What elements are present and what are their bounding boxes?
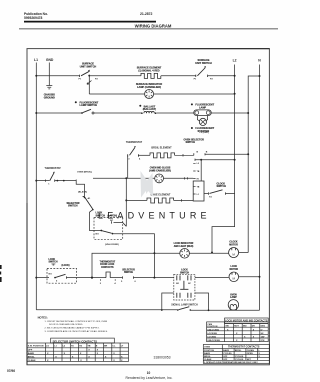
svg-text:P2: P2 xyxy=(210,79,213,81)
svg-text:N: N xyxy=(258,59,261,63)
lock switch B label xyxy=(49,259,70,267)
svg-text:NC: NC xyxy=(188,283,191,285)
switch S2 surface unit switch xyxy=(194,67,214,81)
switch fluorescent lamp switch label xyxy=(80,101,99,107)
ground label xyxy=(44,94,55,100)
junction N row1 xyxy=(259,75,261,77)
ground chassis symbol xyxy=(46,86,52,89)
svg-text:BAKE: BAKE xyxy=(28,352,35,355)
wire main bottom row seg1 xyxy=(36,277,49,279)
starter fluorescent starter xyxy=(199,118,206,125)
svg-text:OFF: OFF xyxy=(223,359,228,361)
svg-text:OPEN: OPEN xyxy=(247,353,253,355)
svg-text:2: 2 xyxy=(100,283,102,285)
oven selector terminal box xyxy=(193,181,204,201)
svg-text:CLOCK: CLOCK xyxy=(229,242,238,244)
svg-text:(BALLAST): (BALLAST) xyxy=(143,108,156,111)
svg-text:CLEAN: CLEAN xyxy=(28,359,36,362)
wire L2 jog to clock motor xyxy=(212,194,235,253)
inductor ballast xyxy=(141,111,156,114)
lamp oven xyxy=(228,300,238,311)
wire to selector arm xyxy=(76,180,84,197)
svg-text:LT: LT xyxy=(121,346,124,348)
motor clock xyxy=(229,248,239,258)
resistor bake element xyxy=(147,198,174,203)
svg-text:L2: L2 xyxy=(197,163,200,165)
header publication text xyxy=(24,12,153,20)
switch fluorescent lamp switch xyxy=(81,109,94,114)
interlock T bar xyxy=(180,281,188,290)
starter label xyxy=(195,127,214,133)
svg-text:BROIL: BROIL xyxy=(204,356,211,358)
svg-text:TB: TB xyxy=(197,186,200,188)
main border frame xyxy=(27,49,269,365)
switch signal lamp blade xyxy=(177,307,191,311)
wire row4 to N feed xyxy=(205,153,248,155)
svg-text:A1: A1 xyxy=(88,197,92,200)
bullet fluorescent starter xyxy=(191,127,193,129)
svg-text:AND LIGHT (RED): AND LIGHT (RED) xyxy=(174,245,194,248)
lamp fluorescent label xyxy=(195,103,214,109)
svg-text:BROIL ELEMENT: BROIL ELEMENT xyxy=(151,146,172,149)
svg-text:SWITCH: SWITCH xyxy=(217,185,227,188)
svg-text:LO: LO xyxy=(46,346,49,348)
motor lock label xyxy=(230,266,239,271)
svg-text:OVEN: OVEN xyxy=(204,346,210,348)
header thick rule xyxy=(24,21,156,23)
junction x93 main row xyxy=(91,277,93,279)
signal lamp switch dashed box xyxy=(174,274,195,300)
wire lock box lower exit xyxy=(113,234,154,278)
svg-text:LOCK: LOCK xyxy=(49,259,56,261)
svg-text:MOTOR: MOTOR xyxy=(229,244,238,246)
switch S2 surface unit switch label xyxy=(195,59,212,65)
lock switch A dashed box xyxy=(94,218,123,240)
svg-text:MOTOR: MOTOR xyxy=(230,269,239,271)
lock switch A NC contact xyxy=(112,221,127,226)
svg-text:CL: CL xyxy=(112,346,116,348)
scan specks left edge xyxy=(0,265,2,282)
svg-text:P1: P1 xyxy=(79,78,82,80)
resistor broil element xyxy=(150,153,175,158)
svg-text:GROUND: GROUND xyxy=(44,96,55,99)
wire bake row right xyxy=(174,199,194,201)
svg-text:POSITION: POSITION xyxy=(207,326,217,328)
svg-text:L1: L1 xyxy=(54,346,57,348)
wire row3 right to N feed xyxy=(211,112,248,114)
svg-text:LOCKED: LOCKED xyxy=(207,337,216,339)
switch S1 second pole blade xyxy=(87,81,92,85)
svg-text:Rendered by LeadVenture, Inc.: Rendered by LeadVenture, Inc. xyxy=(126,376,173,380)
lamp fluorescent tube xyxy=(194,110,211,116)
junction N feed row3 xyxy=(247,112,249,114)
wire row2 xyxy=(89,93,234,95)
svg-text:10: 10 xyxy=(147,371,151,375)
wire row1 mid xyxy=(90,75,141,77)
svg-text:OVEN (BROIL): OVEN (BROIL) xyxy=(77,171,92,173)
wire N feed vertical xyxy=(248,76,259,253)
wire clock switch to L2 xyxy=(226,193,235,195)
svg-text:4: 4 xyxy=(114,282,116,285)
svg-text:07/96: 07/96 xyxy=(7,369,15,373)
switch S1 surface unit switch xyxy=(79,70,99,80)
svg-text:TB: TB xyxy=(88,346,91,348)
svg-text:B: B xyxy=(96,346,98,348)
wire main bottom row seg4 xyxy=(134,277,174,279)
svg-text:SELECTOR SWITCH CONTACTS: SELECTOR SWITCH CONTACTS xyxy=(53,339,98,343)
wire L1 bus xyxy=(35,63,37,310)
wire row3 left xyxy=(36,112,81,114)
svg-text:BAKE: BAKE xyxy=(204,352,211,355)
svg-text:H1: H1 xyxy=(197,179,200,181)
junction dots thermostat row xyxy=(57,180,59,182)
svg-text:DR: DR xyxy=(252,326,256,328)
terminal gap selector B xyxy=(194,153,205,155)
wire N bus xyxy=(259,65,261,311)
svg-text:3. COMPONENTS A RE OF ON NOT: 3. COMPONENTS A RE OF ON NOT DISPLAY ON … xyxy=(45,330,109,333)
lock switch B dashed box xyxy=(47,268,77,283)
junction L1 main bottom row xyxy=(35,277,37,279)
lamp surface indicator label xyxy=(136,83,162,89)
svg-text:IND: IND xyxy=(243,326,247,328)
wire broil row xyxy=(138,154,150,156)
table lock motor and ind contacts xyxy=(207,318,269,342)
junction L1 row3 xyxy=(35,112,37,114)
junction L2 row1 xyxy=(234,75,236,77)
wire clock motor to N feed xyxy=(239,252,249,254)
junction clock motor feed xyxy=(211,252,213,254)
lock switch A label xyxy=(96,212,118,218)
svg-text:CONTACTS: CONTACTS xyxy=(101,266,114,269)
svg-text:SIGNAL LAMP SWITCH: SIGNAL LAMP SWITCH xyxy=(171,304,198,307)
svg-text:(UNLOCKED): (UNLOCKED) xyxy=(105,244,119,246)
svg-text:BAKE: BAKE xyxy=(223,349,230,352)
svg-text:MOT: MOT xyxy=(234,326,239,328)
svg-text:WIRING DIAGRAM: WIRING DIAGRAM xyxy=(135,24,172,29)
svg-text:6: 6 xyxy=(56,281,58,283)
svg-text:(1) SIGNAL 4 RED: (1) SIGNAL 4 RED xyxy=(138,70,159,73)
svg-text:CLEAN: CLEAN xyxy=(204,358,212,361)
wire selector to lock box xyxy=(90,210,101,231)
notes block xyxy=(38,315,109,333)
svg-text:THERMOSTAT CONTACTS: THERMOSTAT CONTACTS xyxy=(228,346,260,349)
svg-text:S.W. POSITION: S.W. POSITION xyxy=(28,346,44,348)
lamp oven signal xyxy=(155,174,164,183)
wire row5 to L2 xyxy=(195,159,235,161)
svg-text:SW: SW xyxy=(225,326,228,328)
svg-text:POSITION: POSITION xyxy=(204,350,214,352)
wire S1 second pole drop xyxy=(88,76,90,94)
clock switch xyxy=(204,190,226,199)
selector switch label xyxy=(67,202,80,208)
bullet fluorescent lamp switch xyxy=(75,101,77,103)
svg-text:LAMP: LAMP xyxy=(199,106,206,109)
junction bottom loop dots xyxy=(161,309,163,311)
svg-text:UNLOCKING: UNLOCKING xyxy=(207,340,220,342)
thermostat T2 switch xyxy=(128,147,141,161)
svg-text:5: 5 xyxy=(121,281,123,283)
svg-text:LEADVENTURE: LEADVENTURE xyxy=(98,211,211,221)
svg-text:H2: H2 xyxy=(79,346,83,348)
svg-text:L1: L1 xyxy=(197,194,200,196)
wire thermostat row xyxy=(36,180,49,182)
lock switch B contacts xyxy=(49,273,67,282)
border left dark lower segment xyxy=(26,203,28,365)
inductor ballast label xyxy=(143,105,156,111)
svg-text:(LOCK): (LOCK) xyxy=(62,265,70,267)
svg-text:THERMOSTAT: THERMOSTAT xyxy=(99,260,115,263)
lamp oven signal label xyxy=(149,167,171,173)
lamp surface indicator xyxy=(145,90,154,99)
svg-text:90°: 90° xyxy=(261,333,264,335)
svg-text:6: 6 xyxy=(135,281,137,283)
svg-text:NO: NO xyxy=(49,273,53,275)
interlock top contact bars xyxy=(176,275,191,285)
table selector switch contacts xyxy=(27,338,129,361)
border top dark segment xyxy=(140,48,269,50)
title underline xyxy=(19,28,278,30)
switch S1 surface unit switch label xyxy=(80,63,97,69)
junction N lock motor row xyxy=(259,276,261,278)
resistor surface element xyxy=(137,67,162,73)
junction L2 row2 xyxy=(234,93,236,95)
svg-text:CYCLES: CYCLES xyxy=(223,353,232,355)
svg-text:SWITCH: SWITCH xyxy=(68,205,78,208)
wire oven signal row xyxy=(93,177,193,179)
svg-text:LAMP (CANDELIER): LAMP (CANDELIER) xyxy=(137,86,161,89)
svg-text:M: M xyxy=(232,252,235,256)
svg-text:LOCK: LOCK xyxy=(231,266,238,268)
svg-text:UNIT SWITCH: UNIT SWITCH xyxy=(195,62,212,65)
lock switch A blade xyxy=(96,230,114,236)
motor clock label xyxy=(229,242,238,247)
wire starter loop xyxy=(197,116,207,121)
wire main bottom row seg2 xyxy=(67,277,107,279)
wire row1 right xyxy=(161,75,196,77)
wire row1 to L2 xyxy=(208,75,235,77)
wire bottom loop xyxy=(36,309,259,312)
svg-text:DEG: DEG xyxy=(261,326,266,328)
junction row5 xyxy=(200,159,202,161)
svg-text:THERMOSTAT: THERMOSTAT xyxy=(126,141,143,144)
clock switch label xyxy=(217,182,227,188)
svg-text:UNLOCKED: UNLOCKED xyxy=(207,329,219,331)
selector contact terminals xyxy=(121,276,137,282)
wire row1 left xyxy=(36,75,79,77)
wire T2 drop to signal row xyxy=(127,155,129,178)
lamp lock indicator xyxy=(180,249,190,259)
svg-text:TB: TB xyxy=(197,171,200,173)
svg-text:SELECTOR: SELECTOR xyxy=(122,269,135,271)
wire main bottom row seg5 xyxy=(195,277,229,279)
lamp oven label xyxy=(230,294,237,299)
svg-text:L OPEN AT OVEN TEMPERATURE ABO: L OPEN AT OVEN TEMPERATURE ABOVE 550°F O… xyxy=(204,361,258,364)
wire row3 to lamp xyxy=(156,112,194,114)
wire bake row xyxy=(126,199,147,201)
contact terminal ticks xyxy=(101,279,116,281)
svg-text:P1: P1 xyxy=(194,79,197,81)
interlock switch label xyxy=(180,270,189,275)
junction L1 row1 xyxy=(35,75,37,77)
wire row3 mid xyxy=(94,112,142,114)
svg-text:"B": "B" xyxy=(52,264,56,266)
junction L1 thermostat row xyxy=(35,180,37,182)
svg-text:BROIL: BROIL xyxy=(28,356,35,358)
svg-text:B: B xyxy=(197,151,199,153)
svg-text:BROIL: BROIL xyxy=(235,350,242,352)
svg-text:OFF: OFF xyxy=(223,356,228,358)
svg-text:OFF: OFF xyxy=(28,350,33,352)
junction bake row xyxy=(125,199,127,201)
wire L2 bus xyxy=(234,65,236,195)
svg-text:UNIT SWITCH: UNIT SWITCH xyxy=(80,66,97,69)
motor lock xyxy=(229,272,239,282)
svg-text:270°: 270° xyxy=(261,340,265,342)
svg-text:THERMOSTAT: THERMOSTAT xyxy=(45,167,62,170)
svg-text:LOCKING: LOCKING xyxy=(207,333,217,335)
thermostat T1 switch xyxy=(48,172,55,186)
svg-text:T4: T4 xyxy=(209,196,212,199)
svg-text:NOTES:: NOTES: xyxy=(38,315,48,319)
svg-text:4: 4 xyxy=(139,158,141,161)
svg-text:P2: P2 xyxy=(95,78,98,80)
wire main bottom row seg3 xyxy=(110,277,122,279)
svg-text:CLEAN: CLEAN xyxy=(247,349,255,352)
thermostat door lock contact bump xyxy=(106,272,110,278)
wire broil row right xyxy=(175,154,194,157)
svg-text:2. W/LT CIRCUITS PACKAGED CA: 2. W/LT CIRCUITS PACKAGED CAPACITY P/N S… xyxy=(45,327,100,330)
interlock bottom contact bars xyxy=(177,293,191,298)
svg-text:LOCK: LOCK xyxy=(181,270,188,272)
svg-text:1: 1 xyxy=(48,184,50,186)
junction L2 row5 xyxy=(234,159,236,161)
svg-text:OVEN: OVEN xyxy=(230,294,237,296)
svg-text:180°: 180° xyxy=(261,337,265,339)
svg-text:B: B xyxy=(206,151,208,153)
junction main row x155 xyxy=(153,277,155,279)
table thermostat contacts xyxy=(203,345,269,364)
wire lock motor to N xyxy=(239,276,260,278)
wire lock indicator row xyxy=(92,253,229,277)
svg-text:21-2872: 21-2872 xyxy=(140,12,153,16)
lamp lock indicator label xyxy=(174,242,194,248)
svg-text:0°: 0° xyxy=(261,329,263,331)
wire row5 drop to selector box xyxy=(200,160,202,181)
svg-text:L2: L2 xyxy=(233,59,237,63)
svg-text:DOOR LOCK: DOOR LOCK xyxy=(100,264,114,266)
oven selector switch label xyxy=(184,138,205,144)
watermark logo mountain xyxy=(141,171,154,198)
selector contact label xyxy=(122,269,135,274)
svg-text:CYCLES: CYCLES xyxy=(235,359,244,361)
wire GND stub xyxy=(48,63,50,86)
svg-text:BR: BR xyxy=(104,346,108,348)
svg-text:LAMP SWITCH: LAMP SWITCH xyxy=(80,104,98,107)
svg-text:BAKE ELEMENT: BAKE ELEMENT xyxy=(151,194,171,197)
svg-text:NO: NO xyxy=(176,283,179,285)
svg-text:(AMB CANDELIER): (AMB CANDELIER) xyxy=(149,170,171,173)
wire thermostat row right xyxy=(55,180,76,182)
bullet fluorescent lamp xyxy=(191,103,193,105)
svg-text:3: 3 xyxy=(128,159,130,161)
terminal ticks signal row xyxy=(185,177,188,179)
terminal ticks ladder xyxy=(193,163,195,194)
svg-text:L2: L2 xyxy=(63,346,66,348)
svg-text:SWITCH: SWITCH xyxy=(186,141,196,144)
svg-text:CYCLES: CYCLES xyxy=(235,356,244,358)
svg-text:H1: H1 xyxy=(71,346,75,348)
svg-text:(BLACK): (BLACK) xyxy=(78,190,87,193)
junction N feed row4 xyxy=(247,153,249,155)
svg-text:L1: L1 xyxy=(34,58,38,62)
svg-text:5995269478: 5995269478 xyxy=(24,16,43,20)
junction signal row x127 xyxy=(125,177,127,179)
svg-text:1. CIRCUIT SHOWN WITH ALL CON: 1. CIRCUIT SHOWN WITH ALL CONTROLS SET T… xyxy=(45,320,108,323)
svg-text:DOOR CLOSED AND UNLOCKED.: DOOR CLOSED AND UNLOCKED. xyxy=(49,323,83,326)
svg-text:LAMP: LAMP xyxy=(230,296,237,299)
svg-text:SWITCH: SWITCH xyxy=(124,272,133,274)
svg-text:L2 (RED): L2 (RED) xyxy=(200,132,210,134)
svg-text:318003053: 318003053 xyxy=(154,355,171,359)
svg-text:GND: GND xyxy=(46,58,54,62)
junction x154 lock ind row xyxy=(153,252,155,254)
svg-text:LOCK INDICATOR: LOCK INDICATOR xyxy=(174,242,194,245)
svg-text:SWITCH: SWITCH xyxy=(49,262,58,264)
svg-text:NO: NO xyxy=(96,234,100,236)
ballast bullet xyxy=(139,105,141,107)
thermostat door lock contacts label xyxy=(99,260,115,269)
selector switch arm xyxy=(83,197,94,211)
svg-text:M: M xyxy=(233,277,236,281)
wire signal lamp lower row xyxy=(162,293,209,310)
vertical x127 xyxy=(125,178,127,226)
svg-text:LOCK MOTOR AND IND CONTACTS: LOCK MOTOR AND IND CONTACTS xyxy=(225,320,268,323)
